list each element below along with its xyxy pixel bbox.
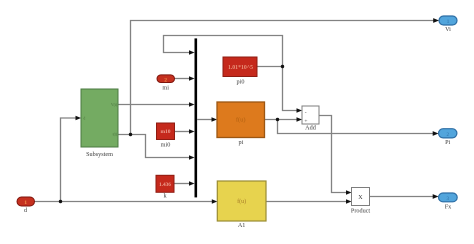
mux bar	[195, 38, 198, 197]
wire W1 inport d to A1	[35, 201, 214, 203]
svg-text:Pi: Pi	[445, 139, 450, 146]
product block Product	[351, 188, 371, 215]
arrowhead into Add input1	[297, 108, 303, 113]
wire W8 k to mux input6	[174, 183, 190, 185]
wire W2 d branch up to Subsystem input	[61, 118, 77, 202]
svg-text:A1: A1	[238, 222, 246, 229]
inport mi	[157, 75, 175, 92]
wire W11a P output to Add input2	[265, 119, 298, 121]
svg-text:Subsystem: Subsystem	[86, 151, 113, 158]
junction dot at pi0 output branch	[281, 65, 284, 68]
svg-text:f(u): f(u)	[237, 198, 246, 205]
svg-text:pi0: pi0	[237, 79, 245, 86]
arrowhead into mux input4	[189, 129, 195, 134]
constant k value 1.436	[156, 175, 174, 199]
svg-text:V(t): V(t)	[111, 103, 118, 107]
arrowhead into Vi outport	[433, 18, 439, 23]
arrowhead into Fx outport	[433, 194, 439, 199]
subsystem block Subsystem	[81, 89, 118, 158]
wire W12 Add output to Product input1	[319, 116, 347, 193]
svg-text:m10: m10	[160, 129, 170, 135]
arrowhead into Pi outport	[433, 131, 439, 136]
wire W4 subsystem out2 to mux input5	[118, 135, 190, 158]
junction dot at d branch	[59, 200, 62, 203]
outport Pi	[439, 129, 457, 146]
constant m10	[157, 123, 175, 149]
svg-text:pi: pi	[238, 139, 243, 146]
arrowhead into mux input1	[189, 50, 195, 55]
fcn block A1	[217, 181, 266, 229]
junction dot at P output branch	[276, 118, 279, 121]
wire W9a pi0 output to junction	[257, 66, 283, 68]
svg-text:-: -	[305, 110, 307, 116]
wire W13 A1 output to Product input2	[266, 201, 347, 203]
svg-text:Product: Product	[351, 208, 371, 215]
junction dot at subsystem out2 branch	[129, 133, 132, 136]
arrowhead into Add input2	[297, 117, 303, 122]
add block Add	[302, 106, 319, 132]
constant pi0 value 1.01*10^5	[223, 57, 257, 86]
fcn block P	[217, 102, 265, 146]
outport Fx	[439, 193, 458, 211]
svg-text:Fx: Fx	[445, 204, 452, 211]
arrowhead into Product input1	[346, 190, 352, 195]
wire W5 subsystem out2 to Vi	[131, 21, 434, 135]
wire W9c pi0 down to Add input1	[283, 67, 298, 111]
arrowhead into mux input6	[189, 181, 195, 186]
arrowhead into Product input2	[346, 199, 352, 204]
svg-text:1: 1	[24, 200, 27, 206]
arrowhead into P input	[212, 117, 218, 122]
svg-text:mi: mi	[162, 85, 169, 92]
svg-text:mi0: mi0	[161, 142, 171, 149]
inport d	[17, 197, 35, 214]
outport Vi	[439, 16, 457, 33]
svg-text:2: 2	[164, 77, 167, 83]
svg-text:X: X	[358, 195, 363, 201]
wire W11b P branch down to Pi outport	[278, 120, 434, 134]
wire W3 subsystem out1 to mux input3	[118, 104, 190, 106]
arrowhead into Subsystem input	[76, 116, 82, 121]
wire W14 Product output to Fx outport	[370, 196, 434, 198]
svg-text:1.436: 1.436	[159, 182, 171, 188]
arrowhead into mux input3	[189, 102, 195, 107]
wire W7 m10 to mux input4	[175, 131, 191, 133]
svg-text:d: d	[84, 117, 86, 121]
svg-text:+: +	[304, 118, 307, 124]
svg-text:1.01*10^5: 1.01*10^5	[228, 65, 253, 71]
arrowhead into A1 input	[212, 199, 218, 204]
arrowhead into mux input5	[189, 155, 195, 160]
svg-text:Add: Add	[305, 125, 317, 132]
wire W9b pi0 loop to mux input1	[164, 36, 283, 67]
svg-text:Vi: Vi	[445, 26, 451, 33]
wire W6 mi to mux input2	[175, 78, 191, 80]
arrowhead into mux input2	[189, 76, 195, 81]
svg-text:f(u): f(u)	[236, 117, 246, 124]
wire W10 mux output to P	[197, 119, 212, 121]
